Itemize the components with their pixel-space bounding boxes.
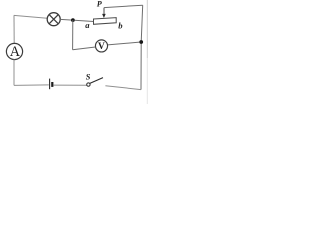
svg-text:a: a — [85, 20, 90, 30]
node dot right — [139, 40, 143, 44]
switch lever — [90, 78, 103, 84]
lamp — [47, 13, 60, 26]
svg-text:b: b — [118, 20, 123, 30]
rheostat body — [94, 18, 117, 25]
wire junction to rheostat a — [75, 20, 94, 21]
svg-text:V: V — [98, 42, 105, 52]
wire voltmeter left lead — [73, 47, 96, 50]
svg-text:S: S — [86, 72, 91, 81]
slider arrowhead — [102, 14, 106, 18]
switch pivot circle — [87, 83, 90, 86]
wire voltmeter right lead — [108, 42, 140, 45]
ammeter A — [6, 43, 22, 59]
wire lamp to junction — [60, 18, 72, 21]
wire right vertical upper — [141, 5, 143, 89]
battery short thick plate — [51, 82, 53, 87]
wire left vertical lower — [13, 60, 15, 86]
svg-text:A: A — [10, 44, 21, 60]
wire top-left horizontal — [14, 15, 47, 18]
wire junction down to voltmeter corner — [72, 20, 74, 50]
wire bottom-left to battery — [14, 84, 49, 87]
wire battery to switch — [53, 84, 86, 86]
node junction dot — [71, 18, 75, 22]
battery long plate — [49, 79, 51, 90]
wire slider to top-right — [104, 5, 143, 7]
slider P wire vertical — [103, 8, 105, 15]
page scan edge — [146, 0, 148, 58]
voltmeter V — [95, 40, 107, 52]
wire left vertical upper — [13, 15, 15, 43]
wire switch to bottom-right corner — [105, 86, 141, 90]
